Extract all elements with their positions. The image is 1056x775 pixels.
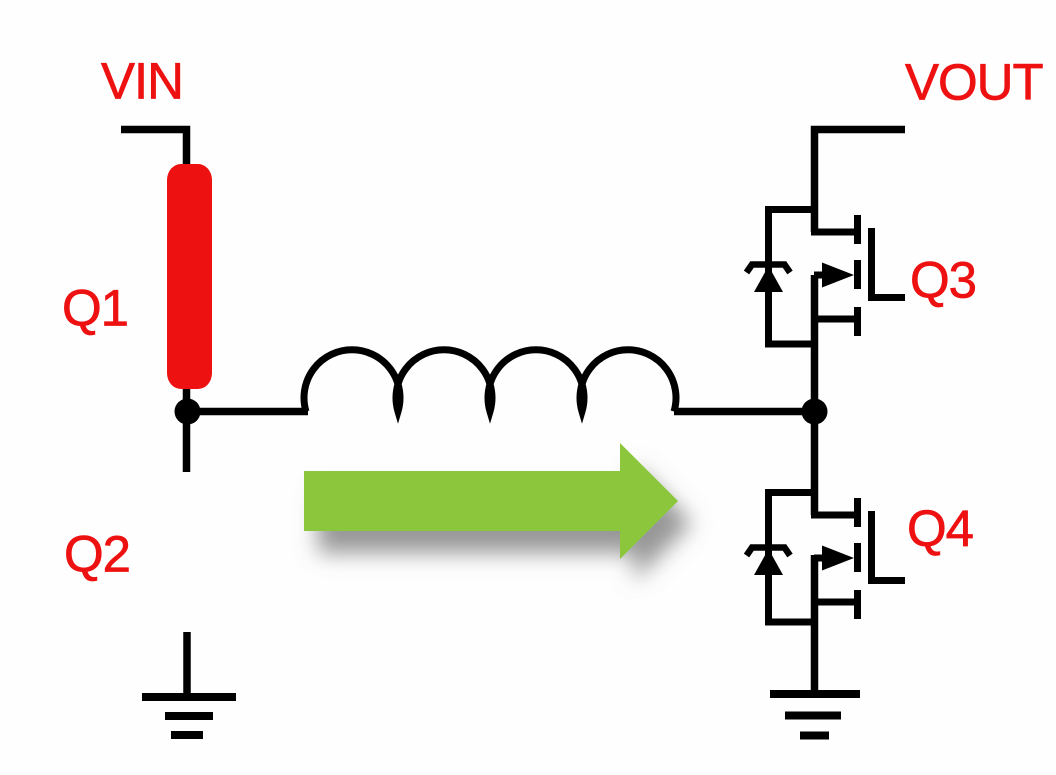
diode Q4 body diode [747, 548, 791, 576]
wire VIN lead to Q1 drain [121, 130, 187, 171]
wire Q3 drain horizontal [811, 229, 854, 236]
wire Q3 source down through node to Q4 drain [811, 275, 819, 515]
wire Q4 source down to ground [811, 555, 819, 694]
ground (right) [770, 694, 860, 736]
wire Q3 body-to-source arrow line [814, 272, 832, 279]
wire switch node to inductor [186, 408, 308, 416]
svg-text:VOUT: VOUT [905, 54, 1043, 111]
svg-text:VIN: VIN [101, 53, 183, 110]
wire Q4 drain horizontal [811, 512, 854, 519]
gate Q4 vertical bar [868, 511, 875, 584]
wire VOUT lead down to Q3 drain [815, 130, 906, 233]
svg-text:Q1: Q1 [62, 280, 128, 337]
svg-text:Q4: Q4 [907, 500, 973, 557]
gate Q3 vertical bar [868, 228, 875, 301]
wire Q4 body-to-source arrow line [814, 555, 832, 562]
current-flow arrow (green) [304, 443, 678, 559]
node switch-node junction dot right [802, 399, 828, 425]
pin Q4 drain tick [854, 498, 861, 527]
wire Q4 body diode loop [769, 493, 815, 623]
pin Q4 source tick [854, 590, 861, 619]
svg-text:Q2: Q2 [64, 526, 130, 583]
pin Q3 source tick [854, 307, 861, 336]
pin Q4 body tick [854, 543, 861, 572]
diode Q3 body diode [747, 265, 791, 293]
pin Q3 body tick [854, 260, 861, 289]
transistor Q4 (NMOS with body diode) [769, 493, 906, 623]
pin Q3 drain tick [854, 215, 861, 244]
wire Q4 gate lead [871, 577, 905, 584]
wire Q3 gate lead [871, 294, 905, 301]
svg-text:Q3: Q3 [910, 252, 976, 309]
transistor Q3 (NMOS with body diode) [769, 210, 906, 345]
wire Q4 source horizontal [811, 599, 854, 606]
ground (left) [142, 697, 236, 735]
wire stub above left ground [183, 632, 191, 697]
wire Q1 source to switch node and stub below [183, 380, 191, 472]
wire inductor to right switch node [674, 408, 814, 416]
arrowhead Q4 body arrow [822, 546, 854, 571]
node switch-node junction dot left [175, 399, 201, 425]
wire Q3 body diode loop [769, 210, 815, 345]
wire Q3 source horizontal [811, 316, 854, 323]
arrowhead Q3 body arrow [822, 263, 854, 288]
inductor L1 [304, 350, 676, 412]
transistor Q1 (on, highlighted red bar) [167, 164, 212, 389]
